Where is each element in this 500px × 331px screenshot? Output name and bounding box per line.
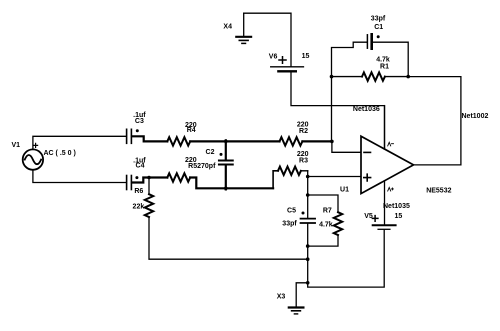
svg-text:V6: V6 [269, 54, 278, 61]
svg-text:R3: R3 [299, 157, 308, 164]
svg-text:33pf: 33pf [282, 221, 297, 228]
svg-text:X3: X3 [277, 294, 286, 301]
svg-text:V5: V5 [364, 213, 373, 220]
svg-text:C1: C1 [374, 24, 383, 31]
svg-text:15: 15 [302, 53, 310, 60]
svg-text:Net1035: Net1035 [383, 203, 410, 210]
svg-text:15: 15 [395, 213, 403, 220]
svg-text:X4: X4 [223, 24, 232, 31]
svg-text:V1: V1 [12, 142, 21, 149]
svg-text:22k: 22k [133, 204, 145, 211]
svg-text:U1: U1 [340, 186, 349, 193]
svg-text:C3: C3 [135, 118, 144, 125]
svg-text:R7: R7 [323, 207, 332, 214]
svg-text:R5270pf: R5270pf [188, 163, 216, 170]
svg-text:C4: C4 [136, 163, 145, 170]
svg-text:Net1036: Net1036 [353, 106, 380, 113]
svg-text:R4: R4 [187, 127, 196, 134]
svg-text:33pf: 33pf [371, 16, 386, 23]
svg-text:R2: R2 [299, 128, 308, 135]
svg-text:R6: R6 [134, 188, 143, 195]
svg-text:AC ( .5 0 ): AC ( .5 0 ) [44, 150, 76, 157]
svg-text:Net1002: Net1002 [462, 113, 489, 120]
svg-text:4.7k: 4.7k [376, 57, 390, 64]
svg-text:R1: R1 [380, 64, 389, 71]
svg-text:NE5532: NE5532 [426, 188, 451, 195]
svg-text:C2: C2 [206, 149, 215, 156]
svg-text:C5: C5 [287, 207, 296, 214]
svg-text:4.7k: 4.7k [319, 222, 333, 229]
